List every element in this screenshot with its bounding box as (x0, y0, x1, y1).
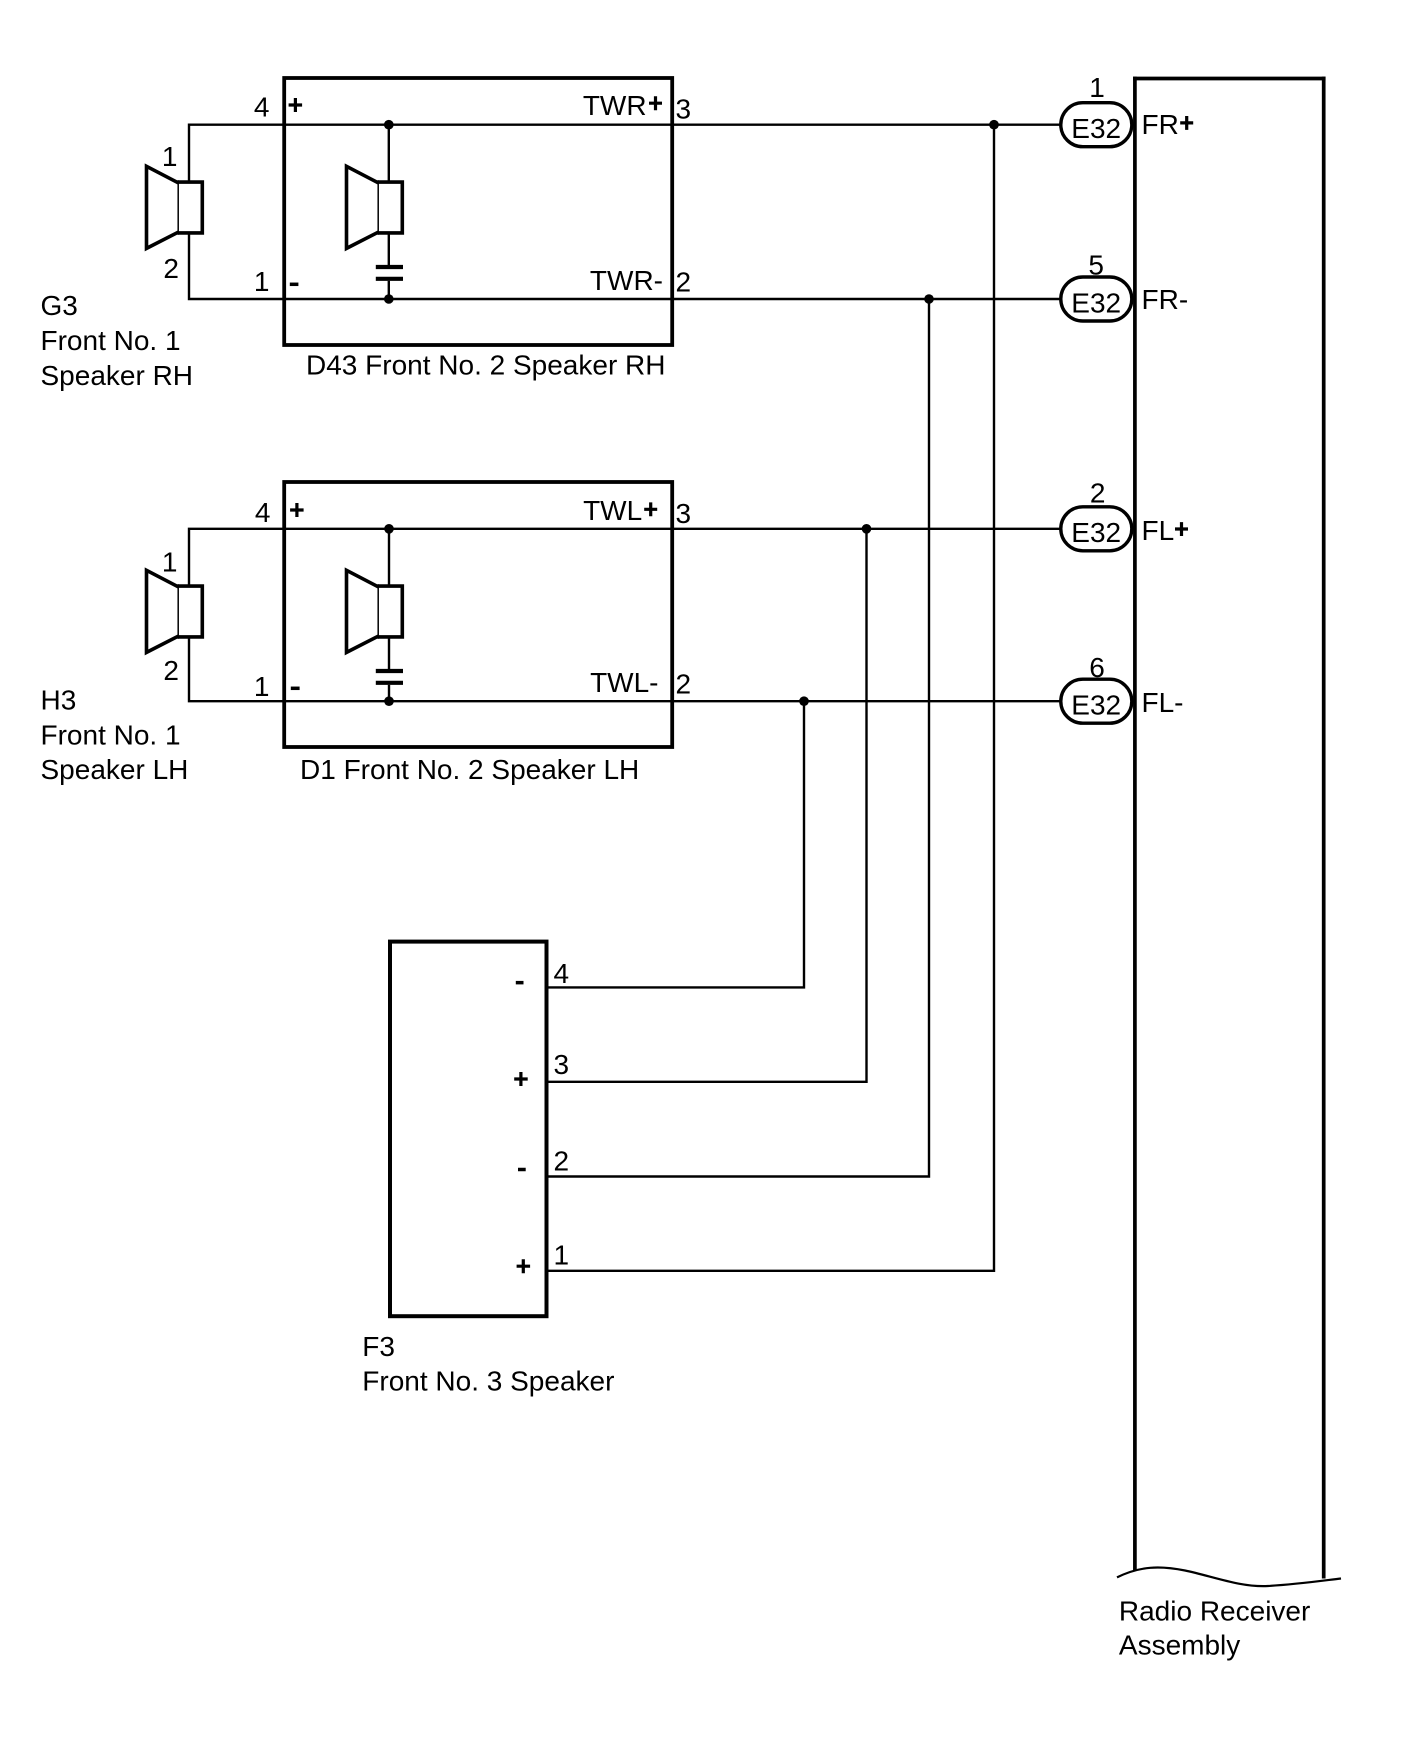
polarity - at F3 pin 4 (516, 981, 524, 985)
pin number 1 of speaker G3 (162, 141, 178, 172)
label D1 Front No. 2 Speaker LH (300, 754, 639, 785)
connector E32 pin2 oval (1061, 507, 1132, 551)
wire F3 pin2 to FR- net (548, 299, 929, 1177)
pin number 2 of speaker G3 (163, 253, 179, 284)
svg-text:1: 1 (1089, 72, 1105, 103)
svg-text:FL-: FL- (1142, 687, 1184, 718)
wire FR+ net: G3 pin1 up and across to E32 pin1 (189, 125, 1062, 181)
polarity - at F3 pin 2 (518, 1168, 526, 1172)
svg-text:2: 2 (676, 267, 692, 298)
svg-text:2: 2 (163, 253, 179, 284)
wire tweeter LH feed from junction to speaker (388, 529, 390, 585)
wire tweeter RH feed from junction to speaker (388, 125, 390, 181)
svg-text:G3: G3 (41, 290, 78, 321)
svg-text:1: 1 (162, 547, 178, 578)
svg-text:TWL: TWL (583, 495, 642, 526)
pin number 1 of E32 FR+ (1089, 72, 1105, 103)
polarity + at D43 pin 4 (289, 98, 303, 112)
pin number 1 of D1 (254, 671, 270, 702)
net label FL+ (1142, 515, 1189, 546)
svg-text:TWL-: TWL- (590, 667, 658, 698)
svg-text:1: 1 (162, 141, 178, 172)
junction dot tweeter RH - (384, 294, 394, 304)
pin number 1 of F3 (554, 1239, 570, 1270)
pin label TWL- (590, 667, 658, 698)
polarity - at D43 pin 1 (290, 283, 299, 287)
pin number 3 of D43 (676, 93, 692, 124)
pin number 4 of D1 (255, 497, 271, 528)
speaker H3 Front No. 1 Speaker LH (147, 570, 203, 652)
svg-text:E32: E32 (1071, 517, 1121, 548)
label G3 Front No. 1 Speaker RH (41, 290, 194, 391)
net label FR- (1142, 284, 1189, 315)
wire F3 pin1 to FR+ net (548, 125, 994, 1271)
wavy break line at bottom of Radio Receiver Assembly (1117, 1567, 1341, 1586)
wire FL+ net: H3 pin1 up and across to E32 pin2 (189, 529, 1062, 585)
connector E32 pin1 oval (1061, 103, 1132, 147)
net label FL- (1142, 687, 1184, 718)
svg-text:2: 2 (163, 655, 179, 686)
capacitor C-RH in D43 (376, 267, 403, 279)
net label FR+ (1142, 109, 1194, 140)
junction dot tweeter LH - (384, 696, 394, 706)
svg-text:2: 2 (676, 669, 692, 700)
svg-text:Assembly: Assembly (1119, 1630, 1240, 1661)
pin number 1 of speaker H3 (162, 547, 178, 578)
label F3 Front No. 3 Speaker (362, 1331, 614, 1397)
svg-text:3: 3 (676, 498, 692, 529)
wire capacitor C-RH to FR- junction (388, 281, 390, 299)
svg-text:3: 3 (676, 93, 692, 124)
svg-text:E32: E32 (1071, 287, 1121, 318)
pin number 2 of D1 (676, 669, 692, 700)
svg-text:TWR: TWR (583, 90, 647, 121)
speaker tweeter in D1 (347, 570, 403, 652)
svg-text:E32: E32 (1071, 690, 1121, 721)
svg-text:1: 1 (254, 671, 270, 702)
pin number 3 of F3 (554, 1049, 570, 1080)
wire F3 pin3 to FL+ net (548, 529, 867, 1082)
svg-text:TWR-: TWR- (590, 265, 663, 296)
pin label TWR- (590, 265, 663, 296)
wire F3 pin4 to FL- net (548, 701, 804, 987)
svg-text:FR-: FR- (1142, 284, 1189, 315)
junction dot F3 pin3 / FL+ (862, 524, 872, 534)
box D43 Front No. 2 Speaker RH (284, 78, 672, 345)
wire FL- net: H3 pin2 down and across to E32 pin6 (189, 638, 1062, 701)
box F3 Front No. 3 Speaker (390, 942, 547, 1317)
svg-text:E32: E32 (1071, 113, 1121, 144)
svg-text:1: 1 (254, 266, 270, 297)
pin number 4 of F3 (554, 958, 570, 989)
svg-text:D43 Front No. 2 Speaker RH: D43 Front No. 2 Speaker RH (306, 349, 666, 380)
pin number 2 of speaker H3 (163, 655, 179, 686)
speaker G3 Front No. 1 Speaker RH (147, 166, 203, 248)
svg-text:4: 4 (254, 92, 270, 123)
pin label TWL+ (583, 495, 657, 526)
svg-text:FR: FR (1142, 109, 1179, 140)
junction dot F3 pin1 / FR+ (989, 120, 999, 130)
svg-text:F3: F3 (362, 1331, 395, 1362)
polarity + at F3 pin 1 (517, 1259, 531, 1273)
svg-text:FL: FL (1142, 515, 1175, 546)
svg-text:6: 6 (1089, 652, 1105, 683)
pin number 4 of D43 (254, 92, 270, 123)
svg-text:Front No. 1: Front No. 1 (41, 325, 181, 356)
junction dot tweeter RH + (384, 120, 394, 130)
polarity + at F3 pin 3 (514, 1072, 528, 1086)
junction dot F3 pin4 / FL- (799, 696, 809, 706)
svg-text:Speaker RH: Speaker RH (41, 360, 194, 391)
box Radio Receiver Assembly (1133, 77, 1326, 1579)
pin number 6 of E32 FL- (1089, 652, 1105, 683)
svg-text:3: 3 (554, 1049, 570, 1080)
svg-text:4: 4 (554, 958, 570, 989)
wire capacitor C-LH to FL- junction (388, 685, 390, 701)
junction dot tweeter LH + (384, 524, 394, 534)
polarity + at D1 pin 4 (290, 503, 304, 517)
label D43 Front No. 2 Speaker RH (306, 349, 666, 380)
capacitor C-LH in D1 (376, 671, 403, 683)
svg-text:Front No. 1: Front No. 1 (41, 719, 181, 750)
pin number 5 of E32 FR- (1088, 250, 1104, 281)
svg-text:2: 2 (1090, 478, 1106, 509)
svg-text:Radio Receiver: Radio Receiver (1119, 1595, 1310, 1626)
label Radio Receiver Assembly (1119, 1595, 1310, 1660)
pin number 2 of F3 (554, 1146, 570, 1177)
pin number 3 of D1 (676, 498, 692, 529)
svg-text:D1 Front No. 2 Speaker LH: D1 Front No. 2 Speaker LH (300, 754, 639, 785)
svg-text:H3: H3 (41, 685, 77, 716)
pin number 1 of D43 (254, 266, 270, 297)
pin number 2 of D43 (676, 267, 692, 298)
svg-text:1: 1 (554, 1239, 570, 1270)
svg-text:Speaker LH: Speaker LH (41, 754, 189, 785)
box D1 Front No. 2 Speaker LH (284, 482, 672, 747)
wire speaker RH to capacitor C-RH (388, 234, 390, 265)
speaker tweeter in D43 (347, 166, 403, 248)
svg-text:2: 2 (554, 1146, 570, 1177)
pin number 2 of E32 FL+ (1090, 478, 1106, 509)
svg-text:5: 5 (1088, 250, 1104, 281)
wire FR- net: G3 pin2 down and across to E32 pin5 (189, 234, 1062, 299)
pin label TWR+ (583, 90, 662, 121)
junction dot F3 pin2 / FR- (924, 294, 934, 304)
wire speaker LH to capacitor C-LH (388, 638, 390, 669)
svg-text:Front No. 3 Speaker: Front No. 3 Speaker (362, 1366, 614, 1397)
connector E32 pin6 oval (1061, 679, 1132, 723)
connector E32 pin5 oval (1061, 277, 1132, 321)
label H3 Front No. 1 Speaker LH (41, 685, 189, 786)
polarity - at D1 pin 1 (291, 687, 300, 691)
svg-text:4: 4 (255, 497, 271, 528)
